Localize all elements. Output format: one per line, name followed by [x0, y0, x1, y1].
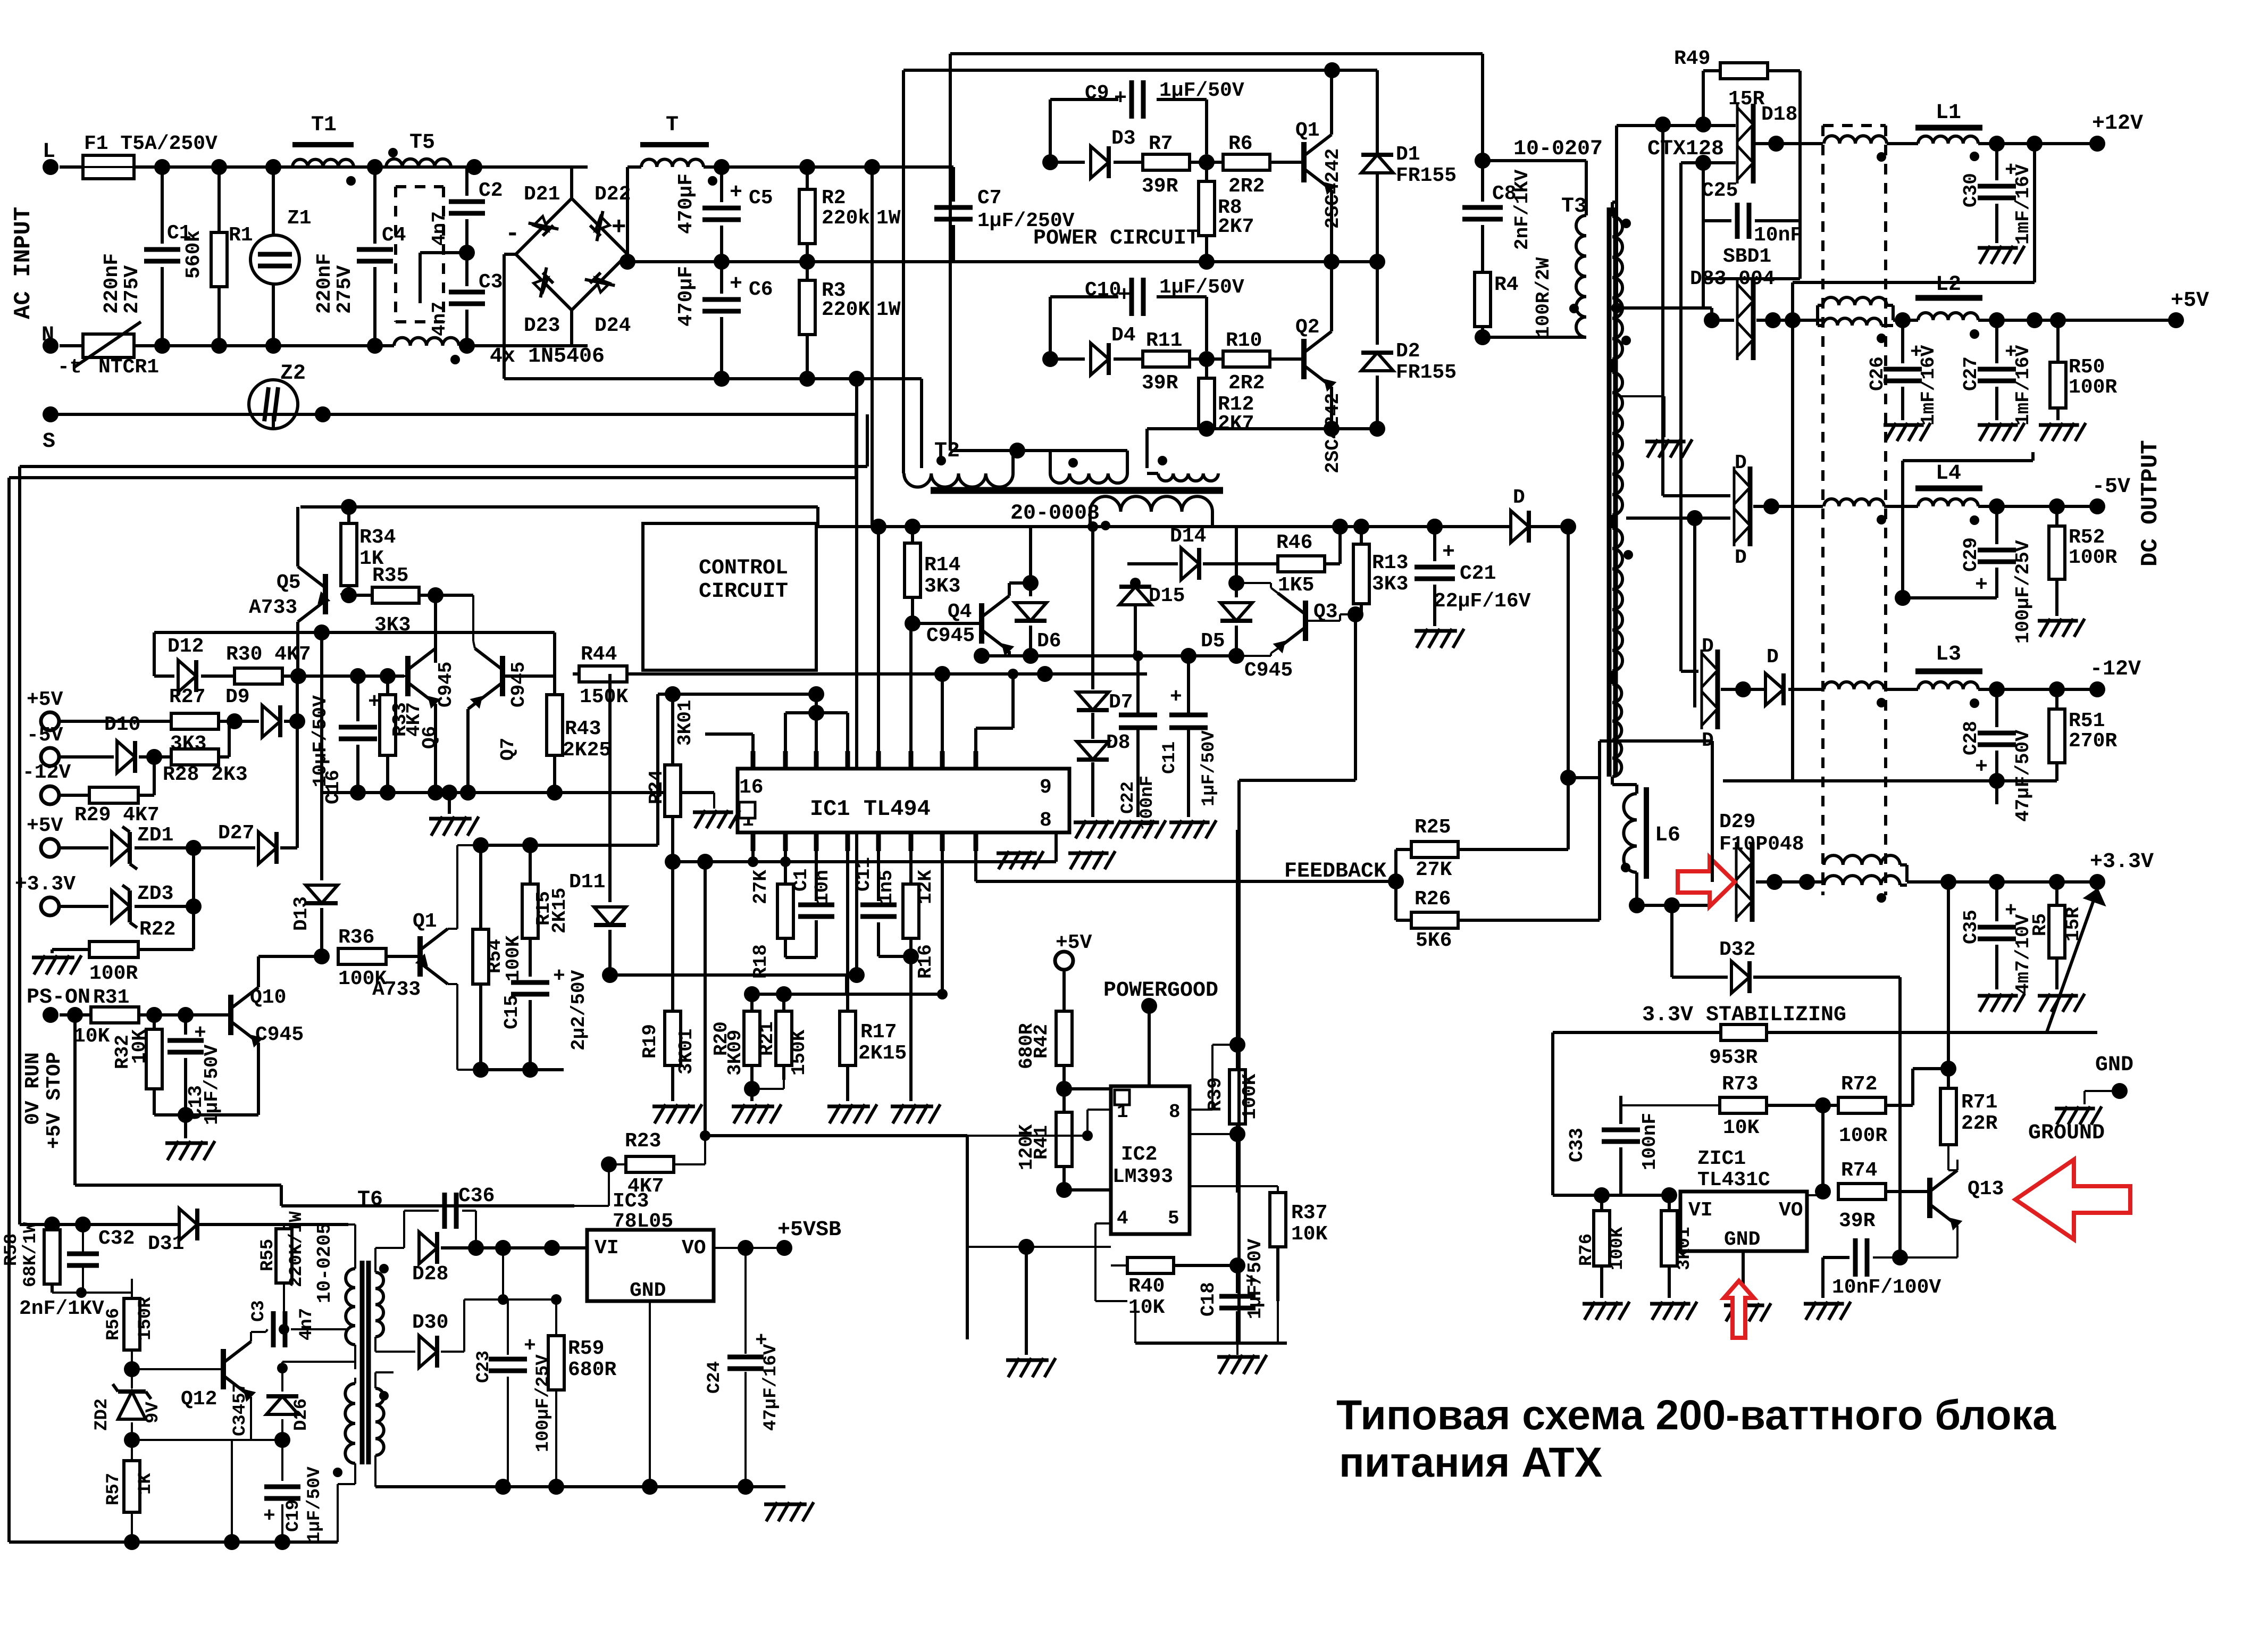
ground C35 [1980, 994, 1990, 1012]
choke winding 3V a [1824, 855, 1900, 865]
wire ic3 vo [714, 1247, 746, 1249]
wire x1713 gnd [909, 956, 913, 1101]
wire r55 down [283, 1293, 285, 1314]
IC1 pin16 wire [751, 734, 755, 751]
svg-text:D6: D6 [1037, 630, 1061, 653]
diode D26 [266, 1396, 298, 1414]
svg-text:C28: C28 [1960, 721, 1982, 755]
T3 secondary seg1 [1612, 216, 1622, 359]
wire D12 bus [154, 631, 555, 634]
diode D6 [1023, 575, 1039, 591]
svg-text:D23: D23 [524, 314, 560, 337]
wire to L1 [1887, 142, 1918, 145]
capacitor C1 10n [798, 903, 834, 907]
svg-text:3K3: 3K3 [924, 575, 960, 598]
capacitor C4 [373, 167, 376, 244]
capacitor C30 [1995, 144, 1998, 180]
d31 leads [135, 1223, 175, 1226]
svg-text:GROUND: GROUND [2028, 1121, 2105, 1145]
d5 riser [1235, 527, 1238, 583]
wire 1869 vert [845, 975, 847, 994]
capacitor 10nF100V [1853, 1238, 1858, 1277]
wire pin5 c1 [815, 851, 818, 901]
wire r72 right [1886, 1104, 1913, 1107]
red arrow 1 [1678, 857, 1735, 906]
resistor R52 100R [2055, 506, 2058, 526]
vert tap b [1661, 124, 1664, 496]
T phase dot [708, 176, 717, 186]
node ZD1 out [186, 840, 202, 856]
svg-text:R17: R17 [860, 1021, 897, 1044]
wire r23 left riser [608, 1164, 610, 1206]
ground gr2 [1070, 851, 1081, 869]
ground R19 [655, 1104, 666, 1123]
Q2 emitter wire [1330, 387, 1333, 429]
svg-text:270R: 270R [2069, 730, 2117, 753]
svg-text:2K25: 2K25 [563, 739, 611, 762]
ground 3K01b [1652, 1302, 1663, 1320]
svg-text:2K7: 2K7 [1218, 412, 1254, 435]
svg-text:C27: C27 [1960, 356, 1982, 391]
wire c33 r73 [1621, 1104, 1720, 1106]
resistor R8 2K7 [1205, 162, 1208, 181]
zener ZD3 [112, 890, 130, 922]
svg-text:5K6: 5K6 [1416, 929, 1452, 952]
wire mid bus [627, 260, 953, 263]
T3 secondary seg3 [1612, 528, 1622, 671]
capacitor C15 2u2 [511, 980, 549, 985]
choke winding 3V b [1824, 876, 1900, 885]
node j2 [211, 159, 227, 175]
node R30 out [290, 668, 306, 684]
resistor 953R [1721, 1024, 1767, 1040]
svg-text:C35: C35 [1960, 910, 1982, 944]
wire bottom bus N [134, 344, 394, 347]
svg-text:20-0008: 20-0008 [1010, 502, 1100, 526]
capacitor C32 body [67, 1252, 99, 1256]
svg-text:+3.3V: +3.3V [2090, 850, 2154, 874]
node C2C3 [465, 219, 468, 286]
node D29 out [1767, 874, 1782, 890]
wire pin14 bus [658, 693, 816, 696]
diode D4 [1050, 357, 1085, 361]
Q4 emitter [1008, 651, 1011, 656]
node D9 out [289, 713, 305, 729]
svg-text:R49: R49 [1674, 47, 1710, 70]
svg-text:D: D [1513, 486, 1525, 509]
resistor R4 100R2W [1475, 272, 1491, 327]
terminal powergood [1141, 998, 1157, 1014]
wire sec to SBD1 [1617, 306, 1712, 310]
t6 prim bot [354, 1345, 356, 1362]
wire bus990 [816, 525, 1568, 528]
ground b2795 [766, 1502, 777, 1521]
svg-text:R43: R43 [565, 718, 601, 740]
wire pin4 down [846, 851, 849, 883]
node j9 [714, 159, 730, 175]
svg-text:A733: A733 [372, 978, 421, 1001]
svg-text:C21: C21 [1460, 562, 1496, 585]
svg-text:L3: L3 [1936, 643, 1961, 667]
resistor R20 3K09 [750, 994, 754, 1011]
wire R4 to T3 bottom [1483, 336, 1586, 339]
T6 sec top return [374, 1337, 376, 1352]
svg-text:+5V: +5V [2171, 289, 2209, 313]
svg-text:1: 1 [1117, 1101, 1128, 1123]
t6 top wire [284, 1223, 355, 1226]
svg-text:L1: L1 [1936, 101, 1961, 125]
Q3 base wire [1305, 620, 1340, 622]
svg-text:+: + [263, 1505, 275, 1528]
svg-text:15R: 15R [1728, 88, 1765, 111]
capacitor C3 4n7 [449, 290, 485, 295]
wire base drive bus [1147, 427, 1377, 430]
svg-text:100R: 100R [2069, 376, 2117, 399]
capacitor C16 10uF [356, 676, 359, 721]
wire x3573 [1898, 977, 1902, 1257]
wire r23 [601, 1156, 617, 1172]
svg-text:C945: C945 [926, 624, 975, 647]
q13 emitter [1956, 1226, 1959, 1257]
svg-text:C1: C1 [790, 869, 812, 892]
ground bus1490 [448, 793, 451, 814]
capacitor C18 1uF50V [1236, 1265, 1239, 1293]
Q3 emitter wire [1271, 648, 1278, 653]
L4 phase dot [1970, 515, 1979, 525]
wire T2sec right drop [1211, 512, 1214, 527]
wire c23 drop [507, 1300, 509, 1355]
wire R28 out [219, 755, 229, 759]
svg-text:+: + [1975, 573, 1988, 597]
svg-text:R27: R27 [169, 686, 205, 709]
3v choke wires [1821, 882, 1825, 885]
diode D8 [1077, 742, 1109, 760]
svg-text:C3457: C3457 [230, 1382, 250, 1436]
svg-text:+5V: +5V [27, 688, 63, 711]
svg-text:R23: R23 [625, 1130, 661, 1153]
resistor R50 100R [2056, 320, 2060, 362]
q12 emitter [250, 1397, 252, 1440]
node R27 out [227, 713, 242, 729]
capacitor C35 [1995, 882, 1998, 921]
svg-text:R1: R1 [229, 224, 253, 247]
svg-text:R40: R40 [1128, 1275, 1165, 1298]
svg-text:4n7: 4n7 [429, 211, 450, 246]
wire bus1833 [610, 973, 857, 977]
T6 sec lower [375, 1388, 384, 1455]
Q5 emitter wire [296, 507, 299, 567]
wire 3v out [1907, 880, 2097, 884]
svg-text:8: 8 [1040, 809, 1052, 832]
T3 sec phase dots [1621, 219, 1631, 228]
svg-text:Типовая схема 200-ваттного бло: Типовая схема 200-ваттного блока [1336, 1391, 2056, 1438]
svg-text:+: + [1118, 284, 1131, 307]
ground C27 [1980, 423, 1990, 441]
node b990-1 [871, 519, 886, 535]
resistor R71 22R [1947, 1069, 1950, 1088]
svg-text:C3: C3 [479, 271, 503, 294]
svg-text:C9: C9 [1085, 82, 1109, 105]
wire r34 line [300, 505, 818, 509]
r55 connect [283, 1283, 285, 1329]
transistor Q2 2SC4242 [1270, 357, 1304, 361]
svg-text:CTX128: CTX128 [1647, 137, 1724, 161]
svg-text:VI: VI [595, 1237, 619, 1260]
svg-text:Q4: Q4 [948, 601, 972, 623]
node zd2 b [124, 1432, 140, 1448]
wire mid bus2 [953, 260, 1377, 263]
node R34 Q5 [341, 587, 357, 603]
Q10 collector [257, 956, 260, 987]
wire bridge top [570, 167, 573, 198]
resistor R16 12K [903, 884, 919, 938]
terminal +3.3V [2089, 874, 2105, 890]
choke winding -12V [1824, 682, 1884, 689]
resistor R40 10K [1127, 1257, 1174, 1273]
wire to L2 [1893, 319, 1918, 322]
capacitor C8 2nF1KV [1462, 205, 1503, 210]
resistor R58 68K1W [44, 1230, 60, 1284]
svg-text:27K: 27K [750, 870, 772, 904]
svg-text:C4: C4 [382, 224, 406, 247]
svg-text:1K: 1K [136, 1473, 156, 1495]
bridge rectifier D21 D22 D23 D24 [516, 198, 627, 310]
svg-text:10K: 10K [129, 1029, 150, 1064]
diode D3 [1050, 161, 1085, 164]
svg-text:A733: A733 [249, 596, 297, 619]
svg-text:R36: R36 [338, 926, 374, 949]
svg-text:1mF/16V: 1mF/16V [1918, 345, 1939, 426]
svg-text:D7: D7 [1109, 691, 1133, 714]
svg-text:R4: R4 [1494, 273, 1519, 296]
node r74 left [1815, 1184, 1831, 1199]
wire L3 out [1978, 688, 2097, 691]
svg-text:T1: T1 [311, 113, 337, 137]
svg-text:D8: D8 [1106, 731, 1131, 754]
capacitor C1 [161, 167, 164, 244]
svg-text:Q1: Q1 [1295, 119, 1320, 142]
svg-text:R34: R34 [359, 526, 396, 549]
transformer T2 winding2 [1050, 473, 1127, 483]
node R42 [1056, 1081, 1072, 1097]
node j10 [799, 159, 815, 175]
choke winding -5V [1824, 499, 1884, 506]
vertical x1733 [920, 379, 923, 468]
svg-text:2nF/1KV: 2nF/1KV [1511, 169, 1533, 250]
node top right1 [1475, 153, 1491, 169]
svg-text:ZD1: ZD1 [137, 824, 173, 847]
svg-text:F1 T5A/250V: F1 T5A/250V [84, 132, 217, 155]
svg-text:3K01: 3K01 [674, 700, 696, 746]
T2 sec wires [1089, 512, 1092, 527]
wire R49 right [1768, 69, 1800, 72]
svg-text:10n: 10n [811, 870, 833, 904]
wire loop top1 [20, 465, 867, 468]
svg-text:D2: D2 [1396, 340, 1420, 363]
svg-text:D3: D3 [1111, 127, 1136, 150]
svg-text:+12V: +12V [2092, 112, 2143, 136]
wire pin 1 down [941, 851, 944, 994]
svg-text:-5V: -5V [27, 724, 63, 747]
capacitor C26 [1901, 320, 1904, 363]
inductor L2 [1915, 295, 1982, 301]
wire top bus [134, 165, 588, 169]
svg-text:C3: C3 [249, 1300, 269, 1322]
node j7 [265, 338, 281, 354]
wire y1702 to D29 [1711, 882, 1714, 905]
c3 right lead [291, 1328, 348, 1330]
node ic2 pin [1018, 1239, 1034, 1255]
svg-text:D18: D18 [1761, 103, 1797, 126]
q12 collector [250, 1332, 252, 1342]
wire loop left1 [18, 467, 21, 1224]
svg-text:DC OUTPUT: DC OUTPUT [2137, 440, 2164, 567]
resistor R54 100K [479, 845, 482, 929]
ground R52 [2040, 619, 2051, 637]
q13 collector [1956, 1160, 1959, 1170]
ground C21 [1417, 629, 1428, 648]
svg-text:PS-ON: PS-ON [27, 986, 90, 1010]
IC IC2 LM393 [1111, 1086, 1190, 1234]
ground C11b [1171, 820, 1182, 838]
svg-text:150R: 150R [136, 1297, 156, 1340]
diode D1 FR155 [1376, 150, 1379, 262]
capacitor C13 1uF [184, 1015, 187, 1035]
node D1b [1369, 254, 1385, 270]
resistor R5 15R [2055, 882, 2058, 905]
ground R17 [830, 1104, 841, 1123]
T3 secondary seg4 [1612, 684, 1621, 777]
wire q4 base [913, 622, 982, 625]
gnd terminal [2112, 1083, 2128, 1099]
wire T5b to bridge [459, 344, 588, 347]
svg-text:-12V: -12V [22, 761, 71, 784]
svg-text:4n7: 4n7 [297, 1308, 317, 1340]
svg-text:D24: D24 [595, 314, 631, 337]
svg-text:Q13: Q13 [1968, 1178, 2004, 1201]
svg-text:S: S [43, 430, 55, 454]
wire -12V sec [1681, 670, 1698, 673]
inductor L3 [1915, 669, 1982, 674]
vert tap c [1679, 163, 1683, 671]
svg-text:2K7: 2K7 [1218, 215, 1254, 238]
wire T3 top lead [1568, 159, 1586, 162]
wire R26 out [1458, 919, 1600, 922]
resistor R24 3K01 [671, 694, 674, 765]
svg-text:R52: R52 [2069, 526, 2105, 549]
wire drive to T2 [1145, 429, 1149, 468]
capacitor C28 [1995, 689, 1998, 727]
T3 sec tap wires [1611, 202, 1614, 216]
svg-text:IC2: IC2 [1121, 1143, 1157, 1166]
inductor T [640, 142, 709, 147]
svg-text:D27: D27 [218, 822, 254, 845]
svg-text:R13: R13 [1372, 552, 1408, 574]
node j5 [154, 338, 170, 354]
wire R36 q1 [386, 955, 420, 958]
wire R29 out [138, 794, 154, 797]
svg-text:10-0207: 10-0207 [1513, 137, 1603, 161]
svg-text:0V RUN: 0V RUN [22, 1052, 45, 1125]
wire bottom box [1135, 1342, 1287, 1345]
inductor T1 [292, 142, 354, 147]
wire d9 riser [296, 676, 299, 848]
svg-text:2R2: 2R2 [1228, 175, 1265, 198]
wire R49 left [1703, 69, 1720, 72]
svg-text:8: 8 [1169, 1101, 1181, 1123]
dashed box output choke [1821, 126, 1825, 895]
resistor R15 2K15 [529, 845, 532, 884]
wire 10nf left [1823, 1256, 1849, 1259]
Q1b collector emitter wires [448, 928, 457, 930]
svg-text:+: + [1975, 755, 1988, 779]
svg-text:3K3: 3K3 [1372, 573, 1408, 596]
svg-text:TL431C: TL431C [1697, 1169, 1770, 1192]
inductor L4 [1915, 486, 1982, 492]
capacitor C11b 1uF50V [1187, 656, 1190, 713]
resistor R7 39R [1143, 154, 1190, 170]
svg-text:470µF: 470µF [675, 173, 698, 234]
wire -5V sec [1663, 494, 1730, 497]
resistor R10 2R2 [1223, 351, 1270, 367]
terminal -5V [2089, 498, 2105, 514]
node -5v left [1687, 510, 1703, 526]
svg-text:R35: R35 [372, 564, 408, 587]
resistor R28 2K3 [171, 749, 219, 765]
svg-text:4: 4 [1117, 1207, 1128, 1229]
capacitor C5 470uF [720, 167, 723, 202]
wire standby top bus [20, 1223, 348, 1226]
transistor Q10 C945 [228, 995, 233, 1035]
svg-text:10nF/100V: 10nF/100V [1832, 1276, 1941, 1299]
choke winding 12V [1824, 136, 1887, 144]
wire r23 link [704, 1136, 706, 1164]
wire L2 out [1978, 319, 2176, 322]
wire fb gnd [337, 1484, 339, 1542]
T3 secondary seg2 [1612, 372, 1622, 515]
wire x3428 mid [1821, 1105, 1825, 1192]
svg-text:+: + [612, 214, 626, 241]
resistor R42 680R [1056, 1011, 1072, 1065]
svg-text:C15: C15 [501, 995, 523, 1029]
svg-text:C33: C33 [1566, 1128, 1588, 1162]
T2 wire w3 [1147, 472, 1158, 475]
wire pson to T6 [75, 1184, 281, 1187]
wire ic2 left bottom [1095, 1222, 1111, 1224]
svg-text:IC3: IC3 [613, 1190, 649, 1213]
control circuit box [643, 523, 816, 670]
svg-text:1mF/16V: 1mF/16V [2012, 345, 2034, 426]
resistor R11 39R [1143, 351, 1190, 367]
svg-text:220nF: 220nF [313, 253, 336, 314]
svg-text:9: 9 [1040, 776, 1052, 799]
node j8 [367, 338, 383, 354]
wire top line A [950, 52, 1483, 55]
L1 phase dot [1970, 152, 1979, 161]
Q5 collector wire [296, 622, 299, 676]
svg-text:D14: D14 [1170, 525, 1206, 548]
svg-text:Q10: Q10 [250, 986, 286, 1009]
svg-text:R2: R2 [822, 187, 846, 210]
wire 5v choke [1818, 304, 1823, 307]
svg-text:10K: 10K [73, 1025, 110, 1048]
transistor Q4 C945 [979, 603, 984, 644]
Q2 collector wire [1330, 262, 1333, 331]
svg-text:D: D [1735, 546, 1747, 569]
wire 10nf right [1873, 1256, 1957, 1259]
node SBD1b [1765, 312, 1781, 328]
svg-text:+3.3V: +3.3V [15, 873, 76, 896]
